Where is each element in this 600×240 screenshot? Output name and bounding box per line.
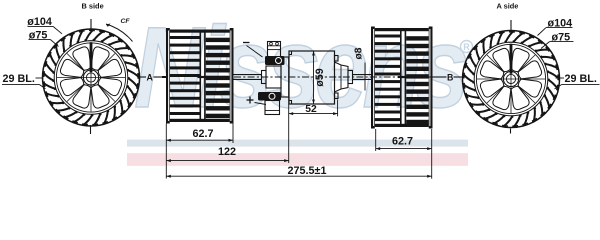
svg-text:B: B: [447, 73, 453, 83]
svg-text:ø8: ø8: [354, 47, 365, 59]
svg-text:A side: A side: [497, 2, 519, 11]
svg-text:122: 122: [218, 146, 236, 158]
svg-text:ø75: ø75: [552, 32, 571, 44]
svg-text:ø104: ø104: [548, 18, 573, 30]
svg-text:52: 52: [305, 104, 317, 115]
svg-text:275.5±1: 275.5±1: [288, 165, 327, 177]
svg-text:A: A: [147, 73, 154, 83]
svg-text:ø104: ø104: [27, 16, 52, 28]
svg-text:ø59: ø59: [314, 68, 326, 86]
svg-text:62.7: 62.7: [392, 136, 413, 148]
svg-text:29 BL.: 29 BL.: [565, 73, 597, 85]
svg-text:ø75: ø75: [29, 30, 48, 42]
svg-text:29 BL.: 29 BL.: [3, 73, 35, 85]
svg-text:B side: B side: [82, 2, 104, 11]
svg-text:R: R: [463, 42, 470, 52]
svg-text:CF: CF: [121, 18, 131, 25]
svg-text:62.7: 62.7: [192, 128, 213, 140]
